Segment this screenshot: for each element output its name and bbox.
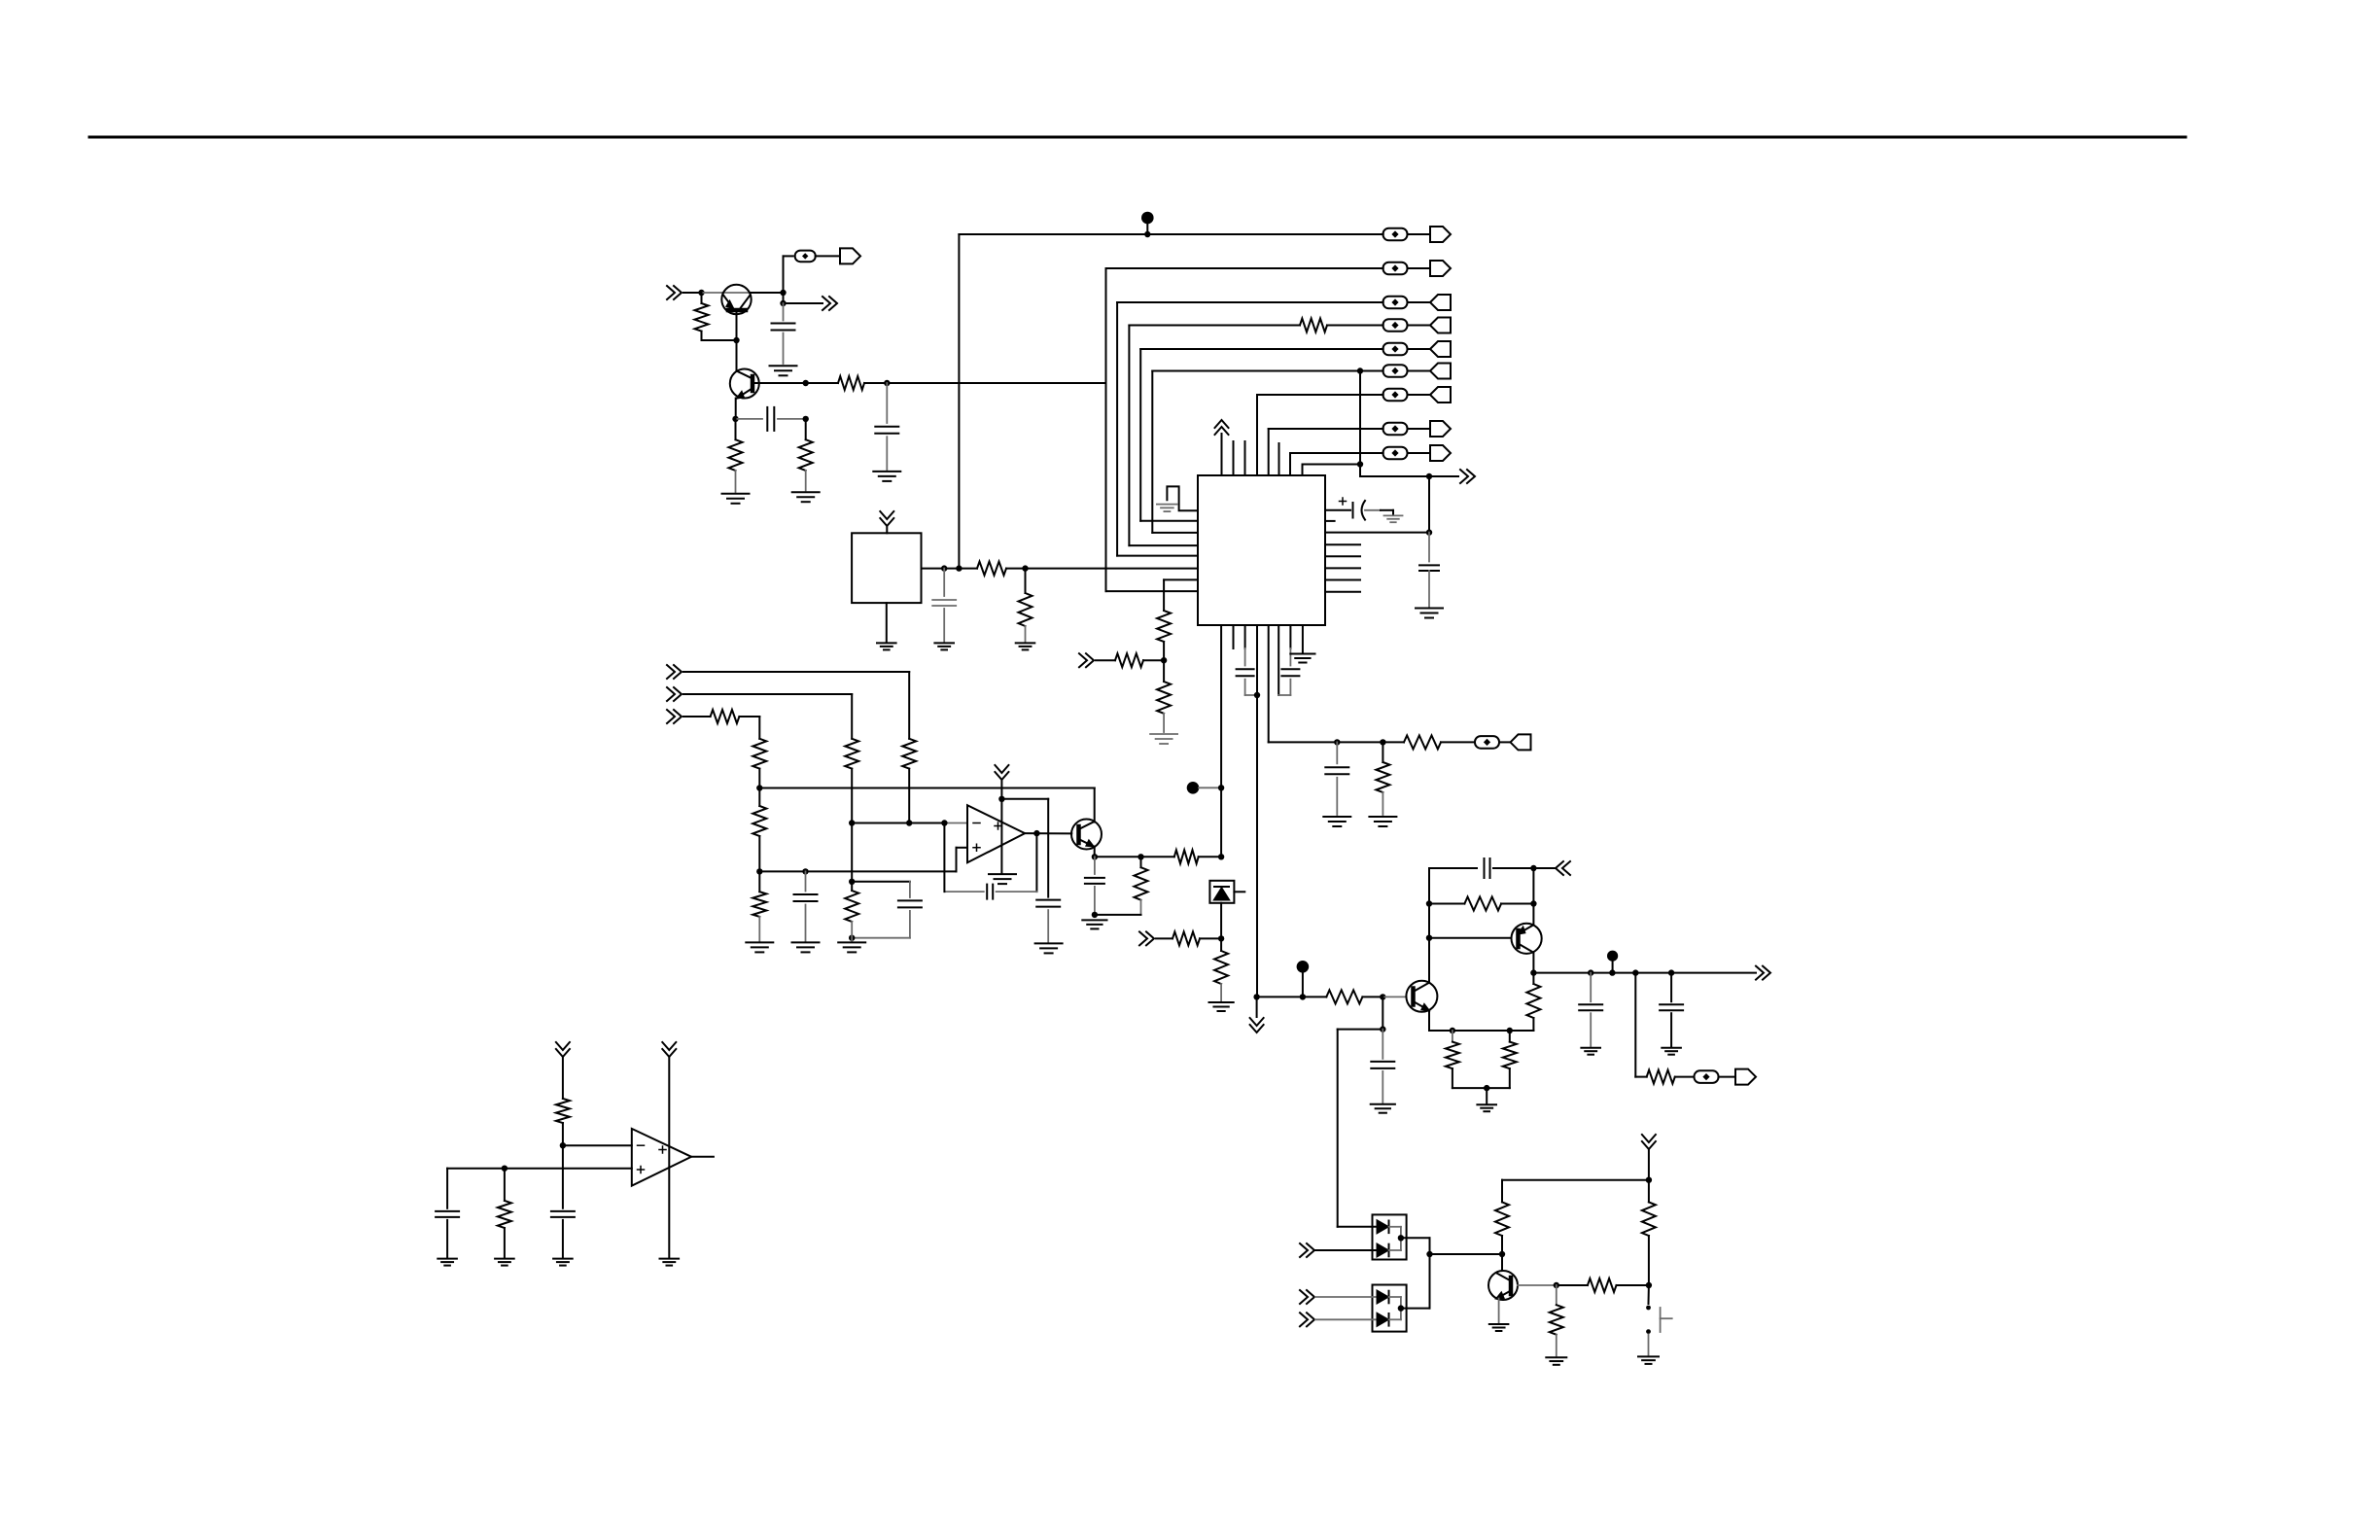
wire DP2 output [1401,1308,1430,1310]
oscillator module Y1 [852,533,921,603]
ground below R11 [1369,816,1396,818]
wire T2 emitter up [1532,904,1534,926]
capacitor C16 feedback loop [1484,858,1486,878]
node R5 right junction [1022,565,1028,571]
node tune line cap junction [1334,739,1340,745]
wire IC pin8 to bus [1302,465,1304,476]
resistor R4 [805,419,807,439]
ferrite bead tune [1475,736,1499,749]
wire plus rail [759,870,956,872]
ground below C19 [437,1258,457,1260]
pulse waveform pin symbol [1167,486,1198,510]
wire supply branch [1001,798,1048,800]
ferrite bead out [1695,1070,1719,1083]
node R33 base junction [1646,1282,1652,1288]
wire U3 plus input [447,1168,632,1170]
node Q1 base bias junction [698,290,704,296]
ground below R3 [722,493,750,495]
wire inverting input row [852,822,944,824]
node emitter row R junction [1137,854,1143,859]
resistor R23 bias down [1214,951,1228,984]
resistor R1 Q1 bias [701,293,703,303]
capacitor C19 U3 [446,1169,448,1208]
wire row1 bus down to oscillator [958,234,960,569]
wire switch to ground [1648,1335,1650,1355]
capacitor C9 tune [1336,742,1338,763]
wire bus to off-page [1360,475,1429,477]
node loop bottom right res [1507,1028,1513,1033]
wire osc to IC pin [1006,568,1026,570]
off-page input chevron in1 [667,665,682,679]
node inverting input junction [849,820,855,825]
wire Y1 out to resistor [944,568,977,570]
wire feedback down [1035,833,1037,892]
ground C5 [1383,514,1402,516]
resistor R21 series out [1141,856,1174,857]
capacitor C12 supply [1036,899,1060,901]
IC top pin stub 2 [1233,441,1235,475]
off-page input chevron in2 [667,687,682,701]
IC right stub b [1325,555,1360,557]
wire diode bus to Q4 [1430,1253,1503,1255]
wire FB1 to connector [816,255,840,257]
connector arrow row8 output [1408,428,1431,430]
resistor R30 U3 [556,1099,570,1123]
connector arrow row1 output [1408,233,1431,235]
wire in2 vertical [851,694,853,739]
resistor R6 osc [1025,569,1027,593]
node row1 bus junction [956,565,962,571]
capacitor C20 U3 minus [562,1145,564,1208]
node pin4 T1 base junction [1253,994,1259,999]
electrolytic capacitor C5 at IC right [1325,509,1350,511]
node T1 base junction [1380,994,1385,999]
ground below R31 [495,1258,514,1260]
resistor R16 divider bottom [758,871,760,892]
connector arrow final output [1735,1069,1756,1085]
wire branch to diode stack [1338,1029,1383,1031]
wire IC left pin row4 [1129,544,1198,546]
wire out branch down [1634,973,1636,1077]
wire output rail [1533,972,1756,974]
capacitor C6 right [1419,564,1439,566]
wire IC left pin row5 [1140,520,1198,522]
resistor R34 Q4 base [1557,1284,1588,1286]
wire Q1 input [683,292,702,294]
dual diode package DP1 [1373,1214,1407,1259]
wire U3 minus input [563,1144,632,1146]
connector arrow row9 output [1408,452,1431,454]
node C2 right junction [803,416,809,422]
connector arrow row5 input [1408,348,1431,350]
diode D3 bottom [1378,1244,1388,1257]
node loop res right [1530,900,1536,906]
node plus cap junction [802,868,808,874]
transistor T2 PNP [1512,924,1542,954]
ground below C12 [1035,942,1063,944]
ferrite bead row8 [1383,423,1408,436]
connector output arrow top-left [840,248,860,263]
node U3 minus junction [560,1142,566,1148]
wire IC left pin row2 [1106,590,1199,592]
ferrite bead row1 [1383,228,1408,241]
node supply junction right [1646,1177,1652,1183]
ground IC pin8 [1290,653,1314,655]
resistor R26 T2 load [1532,973,1534,984]
node right pin junction [1426,529,1432,535]
transistor Q1 PNP [721,285,751,314]
off-page input chevron to Q1 [667,286,682,299]
capacitor C8 under IC [1289,625,1291,648]
ground below R23 [1209,1001,1234,1003]
node in1 to minus junction [906,820,912,825]
node U3 plus junction [502,1166,507,1172]
wire to switch [1648,1285,1650,1304]
resistor R12 tune out [1404,735,1441,749]
dual diode package DP2 [1373,1285,1407,1332]
wire IC bottom pin6 [1277,625,1279,695]
wire row4 net L [1128,326,1130,546]
node Q1 base stem junction [733,337,739,343]
wire Q1 output node up [783,256,785,293]
ground below R35 [1546,1356,1566,1358]
ferrite bead row7 [1383,389,1408,402]
power arrow IC pin1 [1215,420,1229,435]
big node dot N4 [1607,951,1618,962]
ferrite bead row5 [1383,343,1408,356]
wire Q4 emitter [1498,1299,1500,1323]
ground pulse symbol [1157,504,1177,506]
node output junction T2 [1530,969,1536,975]
wire row8 net from IC pin [1268,429,1270,475]
power chevron U3 plus rail [662,1042,676,1057]
node DP2 output [1398,1305,1404,1311]
ground below R19 [838,941,865,943]
wire Q3 collector [1094,788,1096,822]
switch S1 contact bottom [1646,1329,1651,1334]
resistor R27 emitter [1452,1031,1453,1042]
wire in1 vertical [908,672,910,739]
node N4 junction [1609,969,1615,975]
resistor R35 Q4 base gnd [1556,1285,1557,1305]
node C14 gnd junction [1092,912,1098,918]
node emitter join [1484,1085,1489,1091]
transistor Q2 PNP [730,369,759,399]
switch S1 actuator [1660,1308,1662,1332]
resistor R32 Q4 collector [1495,1202,1509,1236]
wire jog [852,881,910,883]
wire T1 base row [1257,996,1327,997]
ferrite bead row2 [1383,262,1408,275]
IC right stub e [1325,591,1360,593]
node N3 junction [1300,994,1306,999]
capacitor C17 out [1590,973,1592,1002]
off-page chevron loop [1533,867,1555,869]
wire loop top [1429,867,1477,869]
wire row2 net L [1105,268,1107,591]
node T2 base junction [1426,935,1432,941]
off-page input chevron in3 [667,710,682,723]
node op-amp supply junction [998,796,1004,802]
resistor R31 U3 [504,1169,506,1201]
node Q3 emitter junction [1092,854,1098,859]
ground below C3 [873,471,900,472]
diode D1 in package [1209,881,1234,903]
off-page output chevron from Q1 [822,297,837,310]
wire feedback up to minus [943,823,945,892]
IC right stub a [1325,543,1360,545]
wire IC bottom pin8 gnd [1302,625,1304,652]
resistor R15 divider mid [758,788,760,807]
wire DP1 output [1401,1237,1430,1239]
IC U1 main controller [1198,475,1325,625]
wire T2 collector down [1532,953,1534,973]
wire DP1 cathode join [1400,1227,1402,1250]
wire Y1 output [922,568,945,570]
node feedback junction minus [941,820,947,825]
node jog junction [849,879,855,885]
wire supply through op-amp to ground [1000,799,1002,873]
resistor R17 in2 [845,739,858,769]
wire bead to connector out [1719,1076,1736,1078]
IC right pin stub [1325,520,1335,522]
node out cap1 [1588,969,1593,975]
node divider junction B [756,868,762,874]
wire bus down right side [1428,476,1430,533]
wire in3 vertical [758,717,760,739]
node loop res left [1426,900,1432,906]
capacitor C14 Q3 [1094,857,1096,874]
wire op-amp output [1025,832,1071,834]
node Q1 output branch [780,300,786,306]
node out branch [1632,969,1638,975]
wire IC bottom pin4 long [1256,625,1258,997]
power chevron down pin4 [1256,997,1258,1017]
node R8 junction [1161,657,1167,663]
wire DP2 cathode join [1400,1297,1402,1319]
connector arrow row4 input [1408,325,1431,327]
node N1 junction on row1 [1144,231,1150,237]
resistor R10 IC adj lower [1163,660,1165,682]
ferrite bead FB1 [795,251,816,262]
ground below C4 [934,642,954,644]
connector arrow row7 input [1408,394,1431,396]
wire bias rail to Q3 collector [759,787,1094,789]
node loop bottom left res [1450,1028,1455,1033]
off-page input chevron DP2a [1300,1290,1314,1304]
wire row3 net L [1116,302,1118,556]
wire emitter row [1095,856,1141,857]
off-page input chevron DP1 [1300,1243,1314,1257]
switch S1 contact top [1646,1306,1651,1311]
off-page input chevron DP2b [1300,1312,1314,1326]
connector arrow row2 output [1408,267,1431,269]
wire feedback bus vertical [1359,371,1361,477]
ground below C1 [770,365,797,367]
power chevron op-amp [995,765,1008,780]
ground below C17 [1581,1047,1600,1049]
node tune line res junction [1380,739,1385,745]
connector arrow tune input [1511,734,1531,750]
node bus junction p8 [1357,461,1363,467]
node loop top right [1530,865,1536,871]
transistor Q4 NPN [1488,1271,1518,1300]
ferrite bead row3 [1383,297,1408,309]
node varactor bias junction [1218,935,1224,941]
wire Q2 collector bus to IC nest [887,382,1105,384]
ground below R10 [1150,733,1177,735]
wire U3 output [691,1156,714,1158]
connector arrow row3 input [1408,301,1431,303]
wire Q3 emitter [1094,847,1096,857]
node long vertical junction [1218,854,1224,859]
wire vertical through diode [1220,903,1222,951]
ground below C9 [1323,816,1350,818]
node op-amp output junction [1033,830,1039,836]
capacitor C3 filter [886,383,888,423]
connector arrow row6 input [1408,370,1431,372]
wire IC left pin resistor net [1164,578,1198,580]
wire IC right long pin [1325,532,1429,534]
big node dot N3 [1297,961,1310,973]
IC bottom pin2 stub [1233,625,1235,648]
node Q4 base junction [1554,1282,1559,1288]
IC right stub c [1325,567,1360,569]
node branch junction [1380,1026,1385,1032]
resistor R9 adj input [1115,653,1143,667]
wire to T1 base [1382,996,1406,997]
resistor R33 right [1648,1180,1650,1203]
wire Q4 base [1518,1284,1557,1286]
ground below C6 [1416,608,1443,610]
wire input to Q1 emitter [702,292,722,294]
ground below C18 [1662,1047,1681,1049]
capacitor C1 Q1 output [783,303,785,321]
node divider junction A [756,785,762,790]
ground U3 rail [660,1258,680,1260]
wire mid column down [851,823,853,882]
node C7 to pin4 [1254,692,1260,698]
resistor R18 in1 [902,739,916,769]
wire branch to off-page right [783,293,785,303]
ferrite bead row9 [1383,447,1408,460]
diode D4 top [1378,1291,1388,1304]
node Q4 collector junction [1499,1251,1505,1257]
wire IC bottom pin1 long [1220,625,1222,857]
capacitor C15 base [1382,1030,1383,1059]
ground below C14 [1082,919,1106,921]
resistor R25 loop [1429,903,1464,905]
wire Q2 base row [754,382,806,384]
wire IC left pin row6 [1152,532,1198,534]
resistor R20 emitter load [1140,857,1142,867]
op-amp U2 [967,805,1025,862]
wire Q1 collector to output node [752,292,784,294]
ferrite bead row4 [1383,319,1408,332]
ground below C20 [553,1258,573,1260]
node Q2 base junction [803,380,809,386]
resistor R29 out [1647,1070,1675,1084]
wire supply to Q4 collector [1502,1179,1649,1181]
ground Q4 emitter [1489,1323,1509,1325]
resistor R22 bias in [1172,931,1200,945]
big node dot N2 [1187,782,1200,794]
ground below C15 [1371,1103,1395,1105]
op-amp U3 [632,1129,691,1186]
node Y1 output junction [941,565,947,571]
node row6 bus junction [1357,367,1363,373]
resistor R14 divider top [752,739,766,769]
wire IC bottom pin5 L [1268,625,1270,742]
node ground tie [849,935,855,941]
node Q2 emitter junction [732,416,738,422]
power chevron U3 minus rail [556,1042,570,1057]
off-page chevron bus output [1429,475,1458,477]
transistor Q3 NPN [1071,820,1102,850]
ground below C11 [792,941,820,943]
wire emitter join [1452,1087,1510,1089]
resistor R7 row4 [1300,319,1327,332]
ground below R6 [1016,642,1035,644]
wire DP1 top input [1338,1226,1377,1228]
resistor R3 Q2 emitter [735,419,737,439]
ground below Y1 [877,642,896,644]
ground emitter join [1477,1103,1496,1105]
ground below R4 [792,491,820,493]
IC top pin stub 3 [1244,441,1246,475]
diode D5 bottom [1378,1313,1388,1326]
power chevron to oscillator Y1 [880,511,893,526]
off-page input chevron adj [1079,653,1094,667]
wire T1 collector up [1428,868,1430,983]
IC top pin stub 6 [1278,443,1280,475]
capacitor C18 out [1670,973,1672,1002]
resistor R5 series osc [977,562,1006,576]
wire T2 base [1429,937,1512,939]
node N2 junction [1218,785,1224,790]
wire row7 net from IC pin [1256,395,1258,475]
wire base branch down [1382,997,1383,1029]
power chevron down right [1642,1135,1656,1149]
resistor R24 T1 base [1326,990,1362,1003]
diode D2 top [1378,1221,1388,1234]
resistor R11 tune [1382,742,1383,762]
resistor R19 mid [851,882,853,891]
capacitor C11 plus rail [805,871,807,891]
node R2 right junction [884,380,890,386]
ground below S1 [1638,1355,1659,1357]
IC right stub d [1325,579,1360,581]
wire IC left pin row3 [1117,555,1198,557]
capacitor C4 osc [943,569,945,596]
capacitor C2 series Q2 [736,418,763,420]
node DP1 output [1398,1235,1404,1241]
ground below R16 [746,941,773,943]
ground op-amp [989,873,1016,875]
off-page input chevron bias [1139,931,1154,945]
wire row5 net L [1139,349,1141,521]
resistor R2 Q2 base [806,382,838,384]
ferrite bead row6 [1383,365,1408,377]
node diode bus junction [1426,1251,1432,1257]
big node dot N1 [1141,212,1154,225]
capacitor C7 under IC [1244,625,1246,648]
page header rule [89,136,2186,139]
transistor T1 NPN [1406,981,1437,1012]
resistor R28 emitter [1509,1031,1511,1042]
capacitor C13 feedback [997,891,1037,892]
resistor R8 IC adj upper [1157,611,1171,642]
